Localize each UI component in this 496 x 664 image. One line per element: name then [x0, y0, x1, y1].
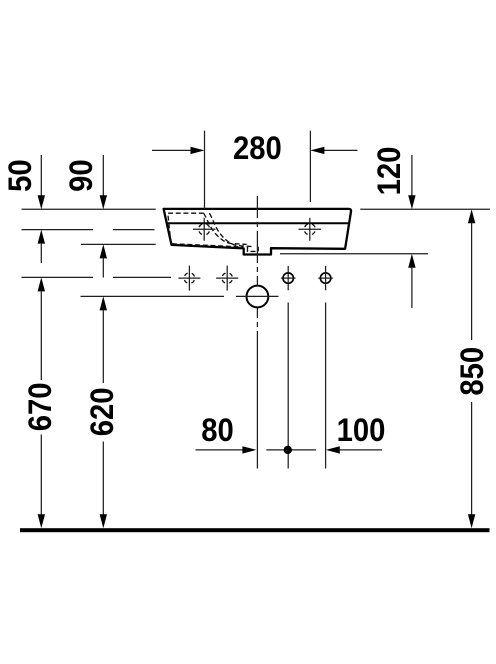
dimension 280 left arrow — [152, 149, 192, 151]
dimension 120 line — [408, 155, 415, 308]
basin hidden bottom line — [172, 244, 243, 247]
dimension 80-100 middle segment — [266, 449, 316, 451]
basin hidden bowl inner curve — [210, 213, 252, 246]
drain circle — [247, 286, 269, 308]
wire: 620-level reference line — [81, 295, 225, 297]
svg-text:120: 120 — [371, 147, 408, 196]
svg-text:670: 670 — [21, 383, 58, 432]
basin body outline — [164, 209, 351, 255]
fixing hole cross right — [299, 218, 322, 241]
dimension 280 extension line left — [204, 131, 206, 209]
supply cross right — [216, 266, 238, 291]
wire: 120-level reference line — [280, 253, 428, 255]
dimension 80-100 junction dot — [284, 446, 292, 454]
wire: 50-level reference line — [22, 229, 155, 231]
wire: wall line left of basin — [22, 208, 156, 210]
basin hidden inner left and top contour — [168, 213, 204, 243]
dimension 620 line — [100, 296, 107, 528]
supply circle left — [281, 266, 296, 469]
svg-text:50: 50 — [2, 159, 39, 192]
svg-text:90: 90 — [62, 159, 99, 192]
basin rim front edge — [166, 222, 349, 224]
svg-text:620: 620 — [84, 388, 121, 437]
svg-text:100: 100 — [337, 412, 386, 449]
dimension 280 right arrow — [323, 149, 357, 151]
wire: 90-level reference line — [81, 243, 156, 245]
dimension 850 line — [468, 209, 475, 528]
dimension 90 line — [100, 155, 107, 278]
dimension 670 line — [38, 277, 45, 528]
svg-text:850: 850 — [454, 347, 491, 396]
drain circle horizontal arm — [236, 295, 279, 297]
supply cross left — [178, 266, 200, 291]
supply circle right — [318, 266, 333, 469]
svg-text:280: 280 — [233, 130, 282, 167]
dimension 280 extension line right — [309, 131, 311, 202]
wire: 670-level reference line — [22, 276, 172, 278]
floor line — [20, 528, 490, 532]
wire: wall line right of basin — [360, 208, 490, 210]
svg-text:80: 80 — [201, 412, 234, 449]
dimension 80-100 line left arrow — [196, 449, 245, 451]
dimension 50 line — [38, 155, 45, 263]
basin hidden bowl outer curve — [204, 213, 247, 244]
basin hidden drain recess — [248, 247, 259, 252]
centerline of drain — [256, 196, 258, 469]
dimension 80-100 right arrow — [339, 449, 382, 451]
fixing hole cross left — [193, 218, 216, 241]
